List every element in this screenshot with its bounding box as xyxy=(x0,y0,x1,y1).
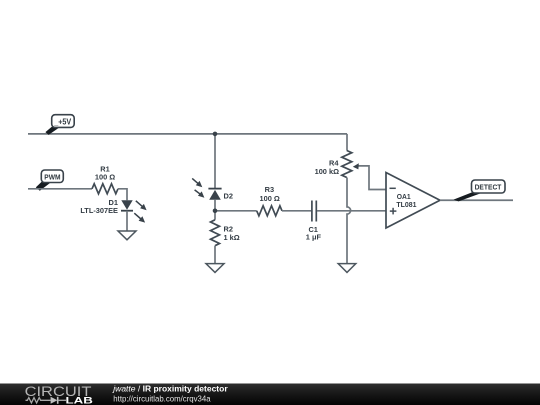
wire: D2 anode down to junction xyxy=(214,200,216,211)
wire: D1 cathode to ground xyxy=(126,211,128,231)
svg-text:R3: R3 xyxy=(265,185,274,194)
svg-text:TL081: TL081 xyxy=(396,200,416,209)
wire: R1 to D1 corner xyxy=(118,189,127,200)
svg-text:1 kΩ: 1 kΩ xyxy=(224,233,240,242)
ground (D1) xyxy=(118,231,136,240)
ground (R2) xyxy=(206,264,224,273)
photodiode D2 incoming light arrow 1 xyxy=(192,178,202,187)
svg-text:D2: D2 xyxy=(224,192,233,201)
photodiode D2 incoming light arrow 2 xyxy=(195,190,205,198)
resistor R1 xyxy=(92,184,118,194)
svg-text:http://circuitlab.com/crqv34a: http://circuitlab.com/crqv34a xyxy=(113,393,210,403)
footer bar xyxy=(0,384,540,405)
ground (R4) xyxy=(338,264,356,273)
wire: R4 column top lead from rail corner down to R4 xyxy=(346,134,348,151)
wire: C1 to op-amp + input (passes under hop) xyxy=(317,210,386,212)
op-amp non-inverting input marker (+) xyxy=(390,208,397,215)
LED D1 emission arrow 1 xyxy=(136,201,147,210)
svg-text:PWM: PWM xyxy=(44,172,60,181)
wire: junction down to R2 xyxy=(214,211,216,220)
wire: D2 branch from +5V rail down to D2 cathode xyxy=(214,134,216,189)
wire: +5V rail from left end to R4 column corner xyxy=(28,133,347,135)
junction at D2/R2/R3 node xyxy=(213,209,218,214)
potentiometer R4 wiper arrow xyxy=(353,163,386,189)
svg-text:_+5V: _+5V xyxy=(53,117,71,126)
op-amp inverting input marker (-) xyxy=(390,187,396,189)
svg-text:100 kΩ: 100 kΩ xyxy=(315,167,339,176)
resistor R2 xyxy=(211,220,220,246)
svg-text:DETECT: DETECT xyxy=(475,183,502,192)
wire: op-amp output to DETECT net end xyxy=(440,199,513,201)
photodiode D2 (cathode bar top, triangle pointing up) xyxy=(208,189,221,200)
footer logo resistor squiggle xyxy=(26,398,51,403)
capacitor C1 xyxy=(312,201,316,222)
svg-text:100 Ω: 100 Ω xyxy=(260,194,280,203)
resistor R3 xyxy=(257,206,282,216)
wire: R4 bottom lead with hop over signal wire, down to ground xyxy=(347,178,351,264)
LED D1 (anode top, pointing down) xyxy=(121,200,133,211)
footer logo diode symbol xyxy=(51,397,66,404)
wire: R3 to C1 xyxy=(282,210,311,212)
node flag DETECT xyxy=(454,180,506,201)
node flag PWM xyxy=(36,170,64,191)
svg-text:LTL-307EE: LTL-307EE xyxy=(80,206,118,215)
svg-text:100 Ω: 100 Ω xyxy=(95,172,115,181)
svg-text:LAB: LAB xyxy=(66,395,93,405)
wire: R2 to ground xyxy=(214,246,216,264)
node flag +5V xyxy=(45,115,74,135)
wire: signal from D2 junction to R3 xyxy=(215,210,257,212)
potentiometer R4 body xyxy=(342,151,352,178)
op-amp OA1 triangle xyxy=(386,173,440,229)
wire: PWM net from left end to R1 xyxy=(28,188,92,190)
svg-text:jwatte / IR proximity detector: jwatte / IR proximity detector xyxy=(112,383,228,393)
LED D1 emission arrow 2 xyxy=(134,213,145,222)
svg-text:1 μF: 1 μF xyxy=(306,233,322,242)
junction on +5V rail at D2 branch xyxy=(213,132,218,137)
